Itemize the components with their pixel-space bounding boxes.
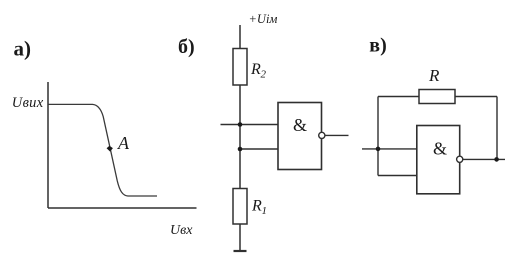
svg-text:б): б) — [178, 36, 195, 58]
svg-text:&: & — [293, 115, 307, 135]
svg-text:Uвих: Uвих — [12, 95, 44, 111]
svg-text:R: R — [428, 66, 440, 85]
svg-text:Uвх: Uвх — [170, 223, 193, 238]
svg-text:+Uім: +Uім — [249, 12, 278, 26]
svg-text:2: 2 — [261, 69, 267, 81]
svg-text:&: & — [433, 139, 447, 159]
svg-text:R: R — [251, 198, 262, 215]
svg-text:R: R — [250, 61, 261, 78]
svg-text:в): в) — [369, 34, 386, 56]
svg-text:а): а) — [14, 36, 32, 60]
svg-text:A: A — [117, 133, 130, 153]
svg-text:1: 1 — [262, 205, 268, 217]
